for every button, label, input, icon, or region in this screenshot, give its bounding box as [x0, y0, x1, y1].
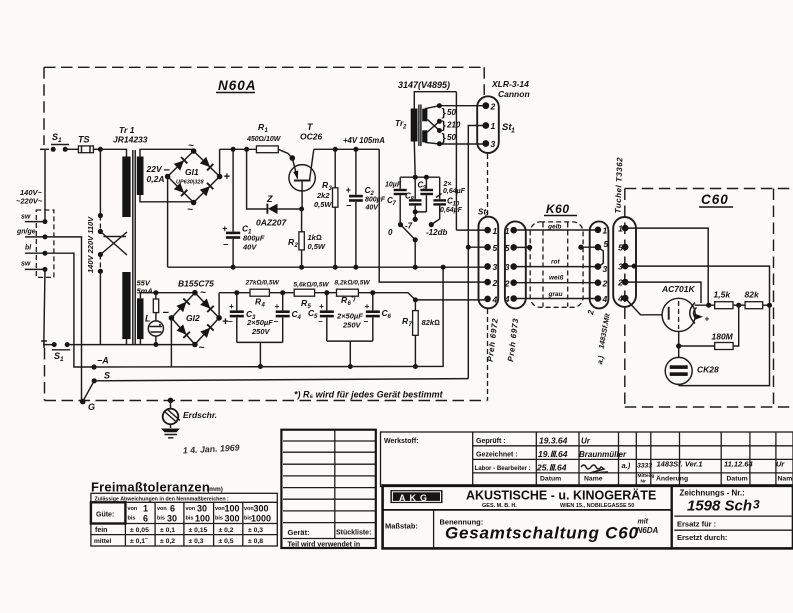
svg-text:K60: K60	[546, 202, 570, 216]
C60 enclosure dashed border right	[773, 189, 775, 408]
svg-text:800µF: 800µF	[243, 234, 265, 243]
transformer Tr2 secondary winding upper	[422, 109, 427, 122]
value labor signature	[581, 465, 608, 473]
node G terminal	[80, 399, 86, 405]
wire Tu pin4 to tube filament	[625, 298, 662, 315]
wire tap1	[425, 106, 486, 109]
wire terminal1 up to S1	[44, 149, 46, 221]
pin St2-1	[484, 227, 491, 234]
wire K60L pin5 shield stub	[514, 246, 530, 248]
svg-text:2: 2	[617, 278, 623, 288]
svg-text:± 0,15: ± 0,15	[189, 527, 208, 534]
switch S1 bottom contacts	[52, 342, 57, 347]
pin St2-3	[484, 263, 491, 270]
node GI2 left vertex	[169, 315, 175, 321]
wire St2 pin4 line to R7	[415, 299, 487, 301]
svg-text:Freimaßtoleranzen: Freimaßtoleranzen	[91, 480, 210, 495]
svg-text:C60: C60	[701, 192, 729, 207]
svg-text:~: ~	[200, 288, 206, 299]
resistor lamp series	[155, 293, 157, 299]
wire +4V drop to St2 pin2	[379, 149, 487, 282]
wire grau	[514, 298, 598, 300]
SECTION:ATTEN	[385, 175, 466, 270]
svg-text:1: 1	[58, 137, 62, 144]
svg-text:1: 1	[143, 504, 148, 514]
svg-text:von: von	[128, 506, 138, 512]
svg-text:3: 3	[618, 262, 623, 272]
svg-text:−: −	[318, 317, 323, 326]
diode Z 0AZ207	[268, 204, 278, 214]
node junction after fuse	[98, 147, 103, 152]
svg-text:19.Ⅲ.64: 19.Ⅲ.64	[538, 449, 568, 459]
svg-text:1: 1	[618, 224, 623, 234]
svg-text:~: ~	[199, 343, 205, 354]
svg-text:300: 300	[254, 504, 269, 514]
svg-text:GI2: GI2	[186, 313, 200, 323]
node shield right	[578, 245, 583, 250]
wire minus7 stub	[414, 212, 416, 219]
transformer Tr1 secondary1 winding	[137, 157, 144, 196]
svg-text:GES. M. B. H.: GES. M. B. H.	[482, 503, 517, 509]
lamp L circle	[148, 321, 163, 336]
svg-text:Z: Z	[266, 194, 273, 204]
svg-text:Gezeichnet :: Gezeichnet :	[476, 451, 518, 458]
svg-text:Datum: Datum	[540, 476, 561, 483]
wire tap4	[425, 142, 486, 144]
svg-text:2×50µF: 2×50µF	[336, 312, 363, 321]
title upper table verticals	[473, 432, 776, 487]
node C5 top	[324, 290, 329, 295]
svg-text:−: −	[364, 317, 369, 326]
svg-text:2: 2	[602, 278, 608, 288]
wire Tu pin1 to anode node	[625, 228, 708, 305]
wire GI2 minus drop to A rail	[170, 318, 172, 367]
node terminal 2	[43, 234, 48, 239]
svg-text:3: 3	[505, 262, 510, 272]
node selector tap a	[98, 213, 103, 218]
svg-text:100: 100	[195, 514, 210, 524]
svg-text:5mA: 5mA	[137, 287, 153, 296]
svg-text:± 0,8: ± 0,8	[248, 538, 263, 545]
svg-text:19.3.64: 19.3.64	[539, 436, 568, 446]
transformer Tr2 core	[418, 105, 420, 147]
fuse TS body	[78, 146, 93, 153]
wire terminal4 down to S1 bottom	[44, 269, 54, 344]
node tap2	[437, 119, 442, 124]
wire primary lower bottom stub	[126, 339, 128, 345]
svg-text:−: −	[274, 317, 279, 326]
svg-text:250V: 250V	[342, 321, 362, 330]
svg-text:Änderung: Änderung	[656, 475, 688, 483]
svg-text:3333: 3333	[637, 463, 652, 470]
svg-text:22V: 22V	[146, 164, 163, 174]
svg-text:gelb: gelb	[547, 224, 561, 231]
diode GI1 top-right	[200, 157, 214, 171]
wire tap crossing a	[427, 120, 439, 131]
connector St1 XLR body	[477, 96, 499, 153]
pin Tu-5	[622, 244, 629, 251]
svg-text:5: 5	[493, 243, 498, 253]
svg-text:−: −	[223, 240, 229, 250]
transformer Tr1 primary winding lower	[122, 272, 130, 339]
diode GI2 top-right	[200, 299, 214, 313]
svg-text:4: 4	[297, 315, 302, 321]
node R2 bottom	[299, 265, 304, 270]
transistor T OC26 circle	[289, 165, 315, 191]
node R7 top	[413, 297, 418, 302]
svg-text:0,64µF: 0,64µF	[443, 188, 466, 195]
node lamp top on rail	[153, 290, 158, 295]
node emitter junction	[290, 155, 296, 161]
tolerance table guete cell heavy box	[91, 502, 126, 523]
wire terminal bl lead	[25, 252, 45, 254]
wire between resistors	[733, 304, 745, 306]
N60A enclosure dashed border left	[43, 67, 45, 145]
svg-text:0AZ207: 0AZ207	[256, 218, 288, 228]
SECTION:K60	[504, 202, 612, 365]
svg-text:Erdschr.: Erdschr.	[183, 410, 217, 420]
diode GI2 bottom-left	[176, 324, 190, 338]
svg-text:± 0,05: ± 0,05	[130, 527, 149, 534]
svg-text:*) R₆ wird für jedes Gerät bes: *) R₆ wird für jedes Gerät bestimmt	[294, 390, 444, 400]
wire S1 bottom to transformer area	[67, 344, 195, 346]
svg-text:von: von	[186, 506, 196, 512]
wire junction to Tr1 primary top	[100, 149, 126, 157]
wire S rail	[94, 379, 468, 381]
svg-text:450Ω/10W: 450Ω/10W	[246, 136, 282, 143]
wire selector vertical upper	[99, 149, 101, 215]
wire +22V top rail	[220, 148, 380, 150]
mains terminal box dashed	[36, 210, 54, 277]
svg-text:3: 3	[493, 262, 498, 272]
line under Zeichnungs	[674, 515, 793, 517]
tube cathode bar	[668, 307, 670, 320]
wire rot	[514, 266, 598, 268]
svg-text:1598 Sch: 1598 Sch	[687, 498, 752, 515]
switch S1 top contacts	[51, 147, 56, 152]
pin K60R-1	[595, 227, 602, 234]
wire Tu pin2 to tube anode top	[625, 282, 701, 303]
svg-text:7: 7	[409, 322, 413, 328]
svg-text:6: 6	[388, 314, 392, 320]
wire 180M left lead	[679, 345, 715, 347]
wire St2 pin5 stub	[468, 246, 487, 248]
N60A enclosure dashed border left lower	[44, 348, 46, 401]
wire Z branch vertical	[247, 149, 268, 209]
svg-text:1 4. Jan. 1969: 1 4. Jan. 1969	[183, 443, 240, 456]
node selector tap d	[98, 269, 103, 274]
transistor base bar	[294, 180, 311, 182]
svg-text:7: 7	[393, 201, 397, 207]
diode GI2 bottom-right	[200, 324, 214, 338]
svg-text:2: 2	[490, 102, 496, 112]
SECTION:TR1	[113, 125, 195, 345]
svg-text:50: 50	[447, 108, 456, 117]
wire weiss	[514, 282, 598, 284]
svg-text:40V: 40V	[242, 243, 257, 252]
wire St2 pin1 from Tr2	[456, 229, 487, 231]
wire selector dashed stub 2	[99, 255, 101, 272]
SECTION:TUCHEL	[613, 157, 636, 307]
svg-text:3: 3	[753, 498, 760, 512]
node S terminal	[92, 378, 97, 383]
cable K60 dashed outline	[530, 222, 583, 307]
svg-text:N6DA: N6DA	[637, 526, 659, 535]
pin Tu-4	[622, 295, 629, 302]
node A-0V junction	[441, 265, 446, 270]
svg-text:0,5W: 0,5W	[308, 242, 326, 251]
connector K60 left body	[505, 221, 526, 308]
svg-text:Preh 6972: Preh 6972	[486, 317, 500, 362]
geraet table rows	[283, 441, 375, 539]
node contact 0	[398, 222, 403, 227]
tube anode arrow	[695, 314, 704, 320]
capacitor C10	[439, 177, 441, 199]
svg-text:a.): a.)	[622, 461, 631, 470]
transformer Tr1 secondary2 winding	[137, 298, 144, 339]
SECTION:RAILS	[80, 265, 468, 456]
svg-text:bis: bis	[186, 516, 194, 522]
node C2 bottom	[353, 265, 358, 270]
svg-text:25.Ⅲ.64: 25.Ⅲ.64	[536, 463, 567, 473]
svg-text:~220V~: ~220V~	[16, 197, 43, 206]
node GI1 left vertex	[165, 174, 171, 180]
SECTION:GI1	[164, 141, 231, 268]
wire terminal2 gnge to G	[45, 237, 83, 402]
resistor 82k	[745, 302, 763, 309]
wire base node to R2	[301, 209, 303, 232]
svg-text:Geprüft :: Geprüft :	[476, 438, 506, 445]
N60A enclosure dashed border top	[44, 66, 484, 68]
N60A enclosure dashed border right mid	[487, 154, 489, 216]
SECTION:C60	[625, 228, 772, 386]
svg-text:bis: bis	[157, 516, 165, 522]
svg-text:sw: sw	[21, 261, 31, 268]
line under Ersatz	[674, 529, 793, 531]
svg-text:G: G	[88, 402, 95, 412]
svg-text:5: 5	[505, 243, 510, 253]
svg-text:Tr 1: Tr 1	[119, 125, 135, 135]
node GI2 right vertex	[216, 315, 222, 321]
svg-text:Name: Name	[584, 476, 603, 483]
wire sec2 top to rail	[140, 293, 195, 299]
svg-text:-7: -7	[405, 222, 413, 231]
cable inner dashed line right	[567, 223, 569, 307]
svg-text:50: 50	[447, 133, 456, 142]
node C2 top	[353, 147, 358, 152]
node terminal 1	[43, 219, 48, 224]
node C5C6 drop	[348, 364, 353, 369]
diode GI1 top-left	[174, 157, 188, 171]
svg-text:−: −	[163, 307, 170, 319]
node terminal 3	[43, 251, 48, 256]
node contact -7	[413, 217, 418, 222]
svg-text:+: +	[319, 302, 324, 311]
tolerance table grid	[91, 502, 277, 534]
svg-text:Tuchel T3362: Tuchel T3362	[614, 157, 625, 214]
wire fuse to junction	[93, 148, 100, 150]
wire Tr2 primary top	[414, 92, 456, 109]
node lamp bottom	[153, 342, 158, 347]
pin St2-2	[484, 279, 491, 286]
svg-text:S: S	[104, 371, 110, 381]
svg-text:4: 4	[617, 294, 623, 304]
svg-text:WIEN 15., NOBILEGASSE 50: WIEN 15., NOBILEGASSE 50	[560, 503, 634, 509]
wire terminal sw1 lead	[25, 221, 45, 223]
svg-text:3: 3	[491, 139, 496, 149]
svg-text:fein: fein	[95, 527, 107, 534]
wire selector vertical lower	[99, 271, 101, 344]
node Z branch top	[244, 147, 249, 152]
wire terminal3 bl to A rail	[45, 253, 94, 367]
node Erdschr stem top	[168, 398, 174, 404]
svg-text:2: 2	[402, 125, 407, 131]
wire CK28 bottom	[678, 384, 680, 385]
pin Tu-1	[622, 225, 629, 232]
node base-Z junction	[299, 207, 304, 212]
wire gelb	[514, 229, 598, 231]
wire R1 to emitter	[278, 149, 292, 158]
svg-text:1483Sf.Mit: 1483Sf.Mit	[597, 312, 612, 349]
node R3 top	[333, 147, 338, 152]
svg-text:AKUSTISCHE - u. KINOGERÄTE: AKUSTISCHE - u. KINOGERÄTE	[466, 488, 656, 503]
pin K60L-5	[510, 244, 517, 251]
node contact -12db	[429, 222, 434, 227]
svg-text:4: 4	[261, 303, 266, 309]
tolerance table outer box	[91, 493, 277, 546]
svg-text:+: +	[705, 315, 710, 324]
wire base down	[301, 182, 303, 210]
svg-text:0,2A: 0,2A	[147, 174, 165, 184]
connector K60 right body	[590, 221, 609, 308]
svg-text:−: −	[346, 201, 352, 211]
wire GI1 minus drop to 0V rail	[167, 177, 169, 268]
node tap4	[437, 141, 442, 146]
SECTION:MAINS	[16, 132, 196, 402]
svg-text:bl: bl	[25, 244, 32, 251]
wire A rail	[94, 267, 443, 367]
pin Tu-2	[622, 279, 629, 286]
SECTION:TR2	[395, 80, 486, 230]
C60 enclosure dashed border bottom	[625, 406, 793, 408]
svg-text:8,2kΩ/0,5W: 8,2kΩ/0,5W	[335, 280, 371, 287]
SECTION:BORDERS	[44, 67, 793, 407]
svg-text:mittel: mittel	[94, 538, 112, 545]
svg-text:OC26: OC26	[300, 132, 322, 142]
capacitor C3	[236, 293, 238, 311]
wire K60R pin5 to pin3 bridge	[598, 247, 603, 266]
rectifier GI2 diamond	[171, 293, 219, 345]
pin St2-5	[484, 244, 491, 251]
pin K60R-3	[595, 263, 602, 270]
svg-text:4: 4	[504, 294, 510, 304]
svg-text:+: +	[346, 185, 352, 195]
node C8C9 bottom	[413, 209, 418, 214]
diode GI1 bottom-left	[174, 183, 188, 197]
SECTION:TOLTABLE	[91, 480, 277, 547]
svg-text:Name: Name	[778, 476, 793, 483]
svg-text:1: 1	[505, 226, 510, 236]
ground Erdschr symbol	[170, 400, 172, 408]
SECTION:LAMP	[145, 290, 163, 347]
svg-text:82kΩ: 82kΩ	[422, 318, 441, 327]
svg-text:−: −	[228, 317, 233, 326]
svg-text:bis: bis	[215, 516, 223, 522]
pin St2-4	[484, 296, 491, 303]
node shield left	[527, 245, 532, 250]
SECTION:ST1	[468, 79, 529, 379]
svg-text:−A: −A	[97, 356, 109, 366]
resistor 1.5k	[715, 302, 733, 309]
svg-text:1kΩ: 1kΩ	[308, 233, 322, 242]
svg-text:+4V 105mA: +4V 105mA	[343, 136, 385, 145]
svg-text:5: 5	[618, 243, 623, 253]
svg-text:2: 2	[504, 278, 510, 288]
pin K60L-1	[510, 227, 517, 234]
N60A enclosure dashed border bottom	[45, 400, 488, 402]
switch S1 top arm	[51, 144, 69, 146]
wire lamp bottom	[155, 336, 157, 344]
svg-text:± 0,2: ± 0,2	[160, 538, 175, 545]
switch S1 bottom tick	[41, 341, 47, 348]
svg-text:800µF: 800µF	[365, 197, 386, 204]
pin K60L-2	[510, 279, 517, 286]
svg-text:JR14233: JR14233	[113, 135, 148, 145]
svg-text:sw: sw	[21, 214, 31, 221]
svg-text:0,5W: 0,5W	[314, 200, 332, 209]
svg-text:Cannon: Cannon	[498, 89, 530, 99]
svg-text:T: T	[307, 122, 314, 132]
svg-text:Mitteilg: Mitteilg	[638, 473, 655, 479]
svg-text:}: }	[442, 132, 447, 144]
wire 0V rail	[168, 266, 488, 268]
SECTION:TITLEBLOCK	[381, 432, 793, 548]
svg-text:+: +	[365, 302, 370, 311]
svg-text:1483Sf. Ver.1: 1483Sf. Ver.1	[657, 460, 703, 469]
svg-text:-12db: -12db	[426, 228, 447, 237]
SECTION:REGULATOR	[168, 122, 488, 282]
wire Z to base node	[278, 208, 302, 210]
wire S1 to fuse	[65, 148, 78, 150]
switch S1 bottom arm	[52, 349, 70, 351]
svg-text:2×: 2×	[443, 181, 452, 188]
title upper table outer	[381, 432, 793, 487]
svg-text:300: 300	[225, 514, 240, 524]
tube AC701k envelope	[662, 298, 695, 331]
svg-text:}: }	[442, 107, 447, 119]
C60 enclosure dashed border left	[624, 189, 626, 408]
svg-text:+: +	[229, 302, 234, 311]
AKG logo box	[390, 490, 442, 503]
svg-text:Gesamtschaltung C60: Gesamtschaltung C60	[445, 524, 639, 543]
wire anode to node	[695, 304, 715, 306]
svg-text:4: 4	[492, 295, 498, 305]
svg-text:± 0,3: ± 0,3	[248, 527, 263, 534]
svg-text:11.12.64: 11.12.64	[724, 460, 753, 469]
svg-text:5: 5	[604, 239, 609, 249]
wire sec1 bottom to GI1 bottom	[140, 195, 194, 202]
wire tap crossing b	[427, 121, 439, 132]
wire K60R pin5 shield stub	[581, 246, 598, 248]
svg-text:Zeichnungs - Nr.:: Zeichnungs - Nr.:	[680, 489, 745, 498]
capacitor C5	[326, 293, 328, 311]
svg-text:Maßstab:: Maßstab:	[385, 522, 418, 531]
pin St1-3	[482, 140, 489, 147]
svg-text:10µF: 10µF	[385, 182, 402, 189]
rectifier GI1 diamond	[168, 151, 220, 203]
SECTION:ST2	[415, 208, 499, 363]
wire C3C4 bottom U	[237, 342, 283, 366]
